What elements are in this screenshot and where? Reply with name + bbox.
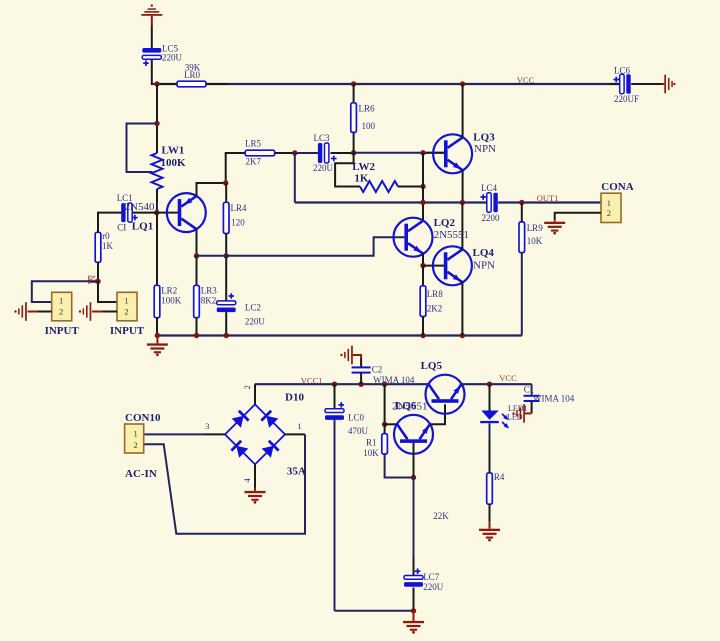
wire LR5 junction to LC3: [295, 152, 318, 154]
wire LQ4 emitter: [461, 282, 463, 335]
wire LC1 to R0: [98, 213, 121, 233]
label LQ2: [434, 217, 469, 241]
capacitor LC2: [217, 293, 236, 312]
wire LC7 bottom: [413, 588, 415, 611]
resistor LR4: [223, 202, 229, 233]
label LR6: [359, 104, 376, 132]
label LR0: [184, 63, 201, 81]
wire mid-line to LQ2 base: [197, 237, 405, 256]
svg-text:WIMA 104: WIMA 104: [533, 393, 575, 403]
resistor LR6: [351, 103, 357, 133]
wire LQ6 base: [413, 443, 415, 478]
svg-text:220UF: 220UF: [614, 94, 639, 104]
wire rail to LC6: [610, 83, 620, 85]
wire LC4 to CONA: [498, 201, 601, 203]
connector CON10: [125, 424, 144, 453]
node junction emitter/LR4: [223, 180, 228, 185]
svg-text:LR3: LR3: [201, 286, 218, 296]
wire bridge bottom lead: [254, 464, 256, 491]
label 35A: [287, 466, 306, 478]
LED LED1: [480, 411, 509, 429]
svg-text:VCC: VCC: [517, 75, 535, 85]
wire node to LQ3 base: [354, 152, 445, 154]
svg-text:22K: 22K: [433, 511, 449, 521]
svg-text:R4: R4: [494, 472, 505, 482]
svg-text:100K: 100K: [161, 296, 182, 306]
wire pot wiper loop: [127, 124, 158, 173]
capacitor LC6: [613, 74, 630, 94]
svg-text:C2: C2: [372, 365, 383, 375]
label LC7: [423, 572, 444, 592]
svg-text:220U: 220U: [162, 52, 183, 62]
pin label 3: [205, 421, 209, 431]
label LED1: [507, 404, 528, 422]
wire LQ5 emitter rail: [461, 383, 531, 385]
wire bus upper: [156, 84, 158, 153]
wire R1 top: [384, 384, 386, 424]
wire LED top lead: [489, 384, 491, 410]
label LR3: [201, 286, 218, 306]
wire INPUT right pin2: [92, 311, 117, 313]
svg-text:1: 1: [607, 198, 611, 208]
svg-text:220U: 220U: [245, 317, 266, 327]
svg-text:LC4: LC4: [481, 183, 498, 193]
potentiometer LW2: [360, 181, 398, 192]
wire LR4 top lead: [225, 183, 227, 202]
label R1: [363, 438, 379, 459]
node junction rail/LQ2-collector: [420, 200, 425, 205]
label LQ6: [392, 400, 427, 413]
diode D10-d (lower right): [262, 441, 279, 458]
wire LQ3 collector: [462, 84, 464, 138]
svg-text:2: 2: [134, 440, 138, 450]
node junction rail/LR8: [420, 333, 425, 338]
svg-text:2K2: 2K2: [427, 304, 443, 314]
wire LQ6 emitter to LQ5 base: [430, 404, 445, 424]
ground (CONA): [544, 222, 565, 235]
pin label 1: [297, 421, 301, 431]
wire bridge top lead: [254, 384, 256, 404]
wire C2 top: [353, 355, 361, 367]
ground (right INPUT): [79, 302, 91, 321]
wire LR4 bottom lead: [225, 234, 227, 256]
svg-text:2: 2: [59, 307, 63, 317]
svg-text:LC0: LC0: [348, 413, 365, 423]
svg-text:100K: 100K: [161, 157, 187, 169]
net label VCC (bottom): [499, 373, 517, 383]
wire LQ3 emitter: [462, 170, 464, 202]
wire LQ1 emitter to LR5: [197, 153, 246, 196]
potentiometer LW1: [152, 153, 163, 189]
svg-text:LR5: LR5: [245, 138, 262, 148]
wire LC0 top lead: [334, 384, 336, 409]
wire LR6 leads: [353, 84, 355, 153]
net label VCC (top): [517, 75, 535, 85]
resistor LR9: [519, 222, 525, 253]
wire R4 bottom: [489, 504, 491, 529]
svg-text:LR2: LR2: [161, 286, 177, 296]
wire LQ2 emitter: [422, 254, 424, 266]
node junction rail/LQ4: [460, 333, 465, 338]
wire LC5 to rail: [151, 59, 153, 85]
label C2: [372, 365, 415, 385]
wire INPUT left pin2: [28, 311, 52, 313]
label LC4: [481, 183, 500, 223]
wire LW2 right: [398, 186, 423, 188]
resistor LR8: [420, 286, 426, 317]
node junction LW2/drop: [420, 184, 425, 189]
svg-text:LQ4: LQ4: [473, 247, 495, 259]
svg-text:2: 2: [242, 385, 252, 389]
pin numbers INPUT left: [59, 295, 63, 316]
ground (bottom rail): [147, 343, 168, 356]
pin label 2: [242, 385, 252, 389]
node junction LQ3 base/LW2: [420, 150, 425, 155]
svg-text:120: 120: [231, 218, 245, 228]
svg-text:LW1: LW1: [162, 144, 185, 156]
wire ground to LC5: [151, 26, 153, 49]
ground (top, inverted): [141, 4, 162, 25]
wire LQ4 collector: [461, 203, 463, 250]
capacitor C1: [524, 395, 540, 402]
svg-text:LQ1: LQ1: [132, 220, 153, 232]
svg-text:r0: r0: [102, 231, 110, 241]
label INPUT right: [110, 325, 145, 337]
label 2N5401: [125, 201, 160, 213]
node junction rail/LR6: [351, 81, 356, 86]
svg-text:220U: 220U: [423, 582, 444, 592]
wire bottom rail: [157, 334, 522, 336]
wire C1 bottom: [525, 402, 532, 414]
label LR2: [161, 286, 182, 306]
wire LQ2e to LR8: [422, 266, 424, 286]
diode D10-c (lower left): [231, 441, 248, 458]
svg-text:1: 1: [59, 295, 63, 305]
label LC0: [348, 413, 369, 437]
transistor Q LQ3: [433, 134, 472, 173]
svg-text:CON10: CON10: [125, 412, 161, 424]
connector CONA: [601, 193, 621, 222]
net label VCC1: [301, 376, 323, 386]
node junction LQ6 base node: [411, 475, 416, 480]
svg-text:2: 2: [124, 307, 128, 317]
wire LW2 drop: [422, 153, 424, 220]
diode bridge D10 outline: [225, 404, 285, 464]
ground (R4): [479, 529, 500, 542]
capacitor C2: [352, 366, 371, 373]
wire LC0 bottom long: [335, 420, 414, 611]
wire collector to LR3: [196, 256, 198, 285]
resistor R4: [487, 473, 493, 504]
svg-text:1K: 1K: [102, 241, 114, 251]
capacitor LC3: [318, 143, 337, 163]
wire LQ6 collector: [385, 423, 397, 425]
node junction OUT1/LR9: [519, 200, 524, 205]
svg-text:INPUT: INPUT: [110, 325, 145, 337]
node junction LR5/drop: [292, 150, 297, 155]
svg-text:10K: 10K: [527, 236, 543, 246]
label LQ3: [473, 131, 496, 155]
label LC2: [245, 303, 266, 327]
svg-text:3: 3: [205, 421, 209, 431]
wire CONA pin2 to ground: [555, 213, 601, 222]
wire R0 to IN node: [97, 262, 99, 281]
svg-text:10K: 10K: [363, 448, 379, 458]
wire bridge right loop: [144, 434, 305, 533]
wire LC2 top lead: [225, 256, 227, 301]
pin numbers CONA: [607, 198, 611, 218]
node junction rail/R1: [382, 382, 387, 387]
wire bridge left lead: [144, 433, 225, 435]
label LR4: [231, 203, 248, 228]
wire VCC1 rail: [255, 383, 429, 385]
node junction rail/LQ3: [460, 81, 465, 86]
wire IN to right INPUT pin1: [98, 281, 117, 302]
label LC1: [117, 193, 133, 233]
svg-text:8K2: 8K2: [201, 296, 217, 306]
node junction rail/bus: [154, 81, 159, 86]
node junction rail/LR2: [155, 333, 160, 338]
label LQ5: [421, 360, 443, 372]
label LQ4: [473, 247, 496, 271]
transistor Q LQ4: [433, 246, 472, 285]
label 22K: [433, 511, 449, 521]
wire LC3 to LR6 node: [331, 152, 354, 154]
wire LQ1 collector: [196, 229, 198, 256]
node junction rail/C2: [358, 382, 363, 387]
ground (bridge): [245, 491, 266, 504]
node junction IN: [95, 279, 100, 284]
node junction R1/LQ6-collector: [382, 422, 387, 427]
node junction LC7/LC0 ground: [411, 608, 416, 613]
node junction rail/LQ3-emitter: [460, 200, 465, 205]
node junction base/bus: [154, 210, 159, 215]
svg-text:LR9: LR9: [527, 223, 544, 233]
svg-text:LR0: LR0: [184, 70, 201, 80]
ground (LC7): [403, 621, 424, 634]
wire top rail: [152, 83, 620, 85]
svg-text:2N5401: 2N5401: [125, 201, 160, 213]
label CONA: [601, 181, 633, 193]
svg-text:AC-IN: AC-IN: [125, 468, 157, 480]
wire stub rail-LR0: [157, 83, 228, 85]
svg-text:1: 1: [124, 295, 128, 305]
label R4: [494, 472, 505, 482]
svg-text:LW2: LW2: [352, 161, 375, 173]
transistor Q LQ1: [167, 193, 206, 232]
ground (top right): [664, 75, 675, 94]
label LW1: [161, 144, 187, 169]
node junction VCC/LED: [487, 382, 492, 387]
wire LR9 top: [521, 203, 523, 222]
resistor R1: [382, 434, 388, 455]
svg-text:OUT1: OUT1: [537, 193, 559, 203]
wire LW2 left hook: [335, 153, 360, 187]
svg-text:VCC: VCC: [499, 373, 517, 383]
wire pot to base node: [156, 189, 158, 213]
wire LR5-drop vertical: [294, 153, 296, 203]
wire IN to left INPUT pin1: [32, 281, 98, 302]
resistor LR0: [177, 81, 206, 87]
wire VCC corner to C1: [531, 384, 533, 395]
svg-text:35A: 35A: [287, 466, 306, 478]
svg-text:1: 1: [134, 429, 138, 439]
label LR5: [245, 138, 262, 166]
label LQ1: [132, 220, 153, 232]
wire LC2 bottom lead: [225, 312, 227, 335]
svg-text:LR4: LR4: [231, 203, 248, 213]
svg-text:CI: CI: [117, 223, 126, 233]
wire C2 bottom: [360, 373, 362, 384]
capacitor LC1: [121, 203, 138, 222]
diode D10-b (upper right): [261, 411, 278, 428]
node junction LQ2e/LQ4b: [420, 263, 425, 268]
label LC5 value: [162, 43, 183, 62]
wire LQ4 base: [423, 265, 444, 267]
wire R1 lead: [384, 424, 386, 433]
svg-text:100: 100: [362, 121, 376, 131]
wire R1 bottom hook: [385, 454, 414, 477]
capacitor LC4: [480, 193, 497, 213]
svg-text:2: 2: [607, 208, 611, 218]
label INPUT left: [45, 325, 80, 337]
node junction rail/LR3: [194, 333, 199, 338]
pin numbers CON10: [134, 429, 138, 450]
wire rail ground stem: [156, 336, 158, 344]
svg-text:220U: 220U: [313, 163, 334, 173]
svg-text:WIMA 104: WIMA 104: [373, 375, 415, 385]
label LR8: [427, 289, 444, 314]
svg-text:1K: 1K: [354, 173, 369, 185]
wire LED to R4: [489, 423, 491, 473]
wire mid rail: [295, 201, 487, 203]
svg-text:2K7: 2K7: [246, 157, 262, 167]
diode D10-a (upper left): [232, 411, 249, 428]
svg-text:NPN: NPN: [473, 260, 495, 272]
node junction LR4/mid-line: [224, 253, 229, 258]
wire LR5 right: [275, 152, 295, 154]
svg-text:LC3: LC3: [314, 133, 331, 143]
wire LC6 to ground: [631, 83, 664, 85]
wire LR2 bottom: [156, 318, 158, 336]
label LW2: [352, 161, 375, 185]
label C1: [524, 385, 575, 404]
svg-text:LC6: LC6: [614, 66, 631, 76]
ground (C2): [340, 346, 353, 365]
label LR9: [527, 223, 544, 246]
capacitor LC5: [142, 48, 161, 66]
svg-text:CONA: CONA: [601, 181, 633, 193]
svg-text:1: 1: [297, 421, 301, 431]
label D10: [285, 392, 304, 404]
svg-text:LR8: LR8: [427, 289, 444, 299]
label LC6: [614, 66, 639, 105]
pin label 4: [242, 478, 252, 483]
resistor R0: [95, 232, 101, 262]
label LC3: [313, 133, 334, 173]
svg-text:NPN: NPN: [474, 143, 496, 155]
wire LR8 bottom: [422, 317, 424, 336]
wire LR3 bottom: [196, 318, 198, 336]
resistor LR5: [245, 150, 275, 156]
wire LQ1 base: [133, 212, 178, 214]
label R0: [102, 231, 114, 251]
capacitor LC0: [325, 402, 344, 420]
label CON10: [125, 412, 161, 424]
node junction collector/mid-line: [194, 253, 199, 258]
wire ground stem LC7: [413, 611, 415, 621]
node junction pot top: [154, 121, 159, 126]
svg-text:R1: R1: [366, 438, 377, 448]
svg-text:LC7: LC7: [423, 572, 440, 582]
svg-text:LQ3: LQ3: [473, 131, 495, 143]
ground (C1): [512, 404, 525, 423]
wire LQ6 base to LC7: [413, 478, 415, 576]
svg-text:2200: 2200: [482, 213, 501, 223]
svg-text:LQ6: LQ6: [395, 400, 417, 412]
wire bus to LR2: [156, 213, 158, 285]
wire LR9 bottom: [521, 253, 523, 336]
pin numbers INPUT right: [124, 295, 128, 316]
connector INPUT left: [52, 292, 72, 321]
label AC-IN: [125, 468, 157, 480]
svg-text:470U: 470U: [348, 426, 369, 436]
transistor Q LQ2: [394, 218, 433, 257]
transistor Q LQ6: [394, 415, 433, 454]
transistor Q LQ5: [426, 375, 465, 414]
svg-text:D10: D10: [285, 392, 304, 404]
svg-text:LQ5: LQ5: [421, 360, 443, 372]
svg-text:VCC1: VCC1: [301, 376, 323, 386]
svg-text:LC2: LC2: [245, 303, 261, 313]
connector INPUT right: [117, 292, 137, 321]
svg-text:INPUT: INPUT: [45, 325, 80, 337]
net label IN: [88, 275, 98, 284]
net label OUT1: [537, 193, 559, 203]
resistor LR2: [154, 285, 160, 317]
ground (left INPUT): [14, 302, 27, 321]
node junction LR6 bottom: [351, 150, 356, 155]
capacitor LC7: [404, 568, 423, 586]
resistor LR3: [194, 285, 200, 317]
node junction rail/LC2: [224, 333, 229, 338]
svg-text:2N5551: 2N5551: [434, 229, 469, 241]
svg-text:LR6: LR6: [359, 104, 376, 114]
svg-text:LQ2: LQ2: [434, 217, 456, 229]
node junction rail/LC0: [332, 382, 337, 387]
